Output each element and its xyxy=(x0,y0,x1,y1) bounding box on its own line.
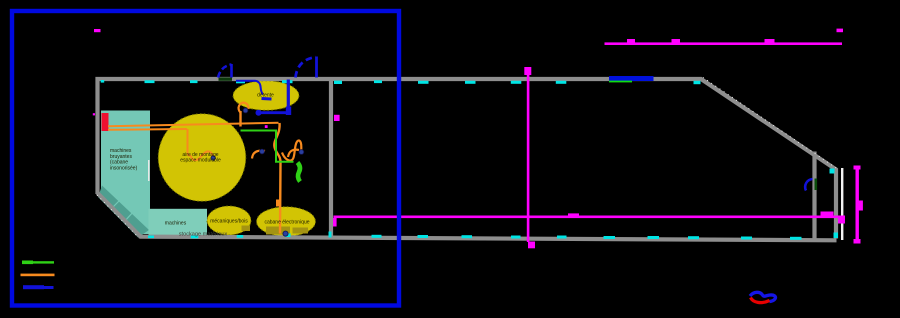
svg-text:insonorisée): insonorisée) xyxy=(110,165,138,171)
svg-text:détente: détente xyxy=(257,93,274,99)
svg-text:machines: machines xyxy=(165,221,187,227)
svg-text:stockage matériaux: stockage matériaux xyxy=(179,232,228,238)
svg-text:cabane électronique: cabane électronique xyxy=(264,220,309,226)
svg-text:mécaniques/bois: mécaniques/bois xyxy=(210,219,248,225)
svg-text:espace modulable: espace modulable xyxy=(180,158,221,164)
